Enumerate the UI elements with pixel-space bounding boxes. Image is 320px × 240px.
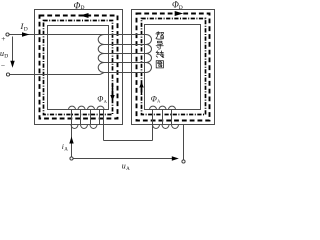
svg-text:A: A	[126, 167, 130, 172]
svg-text:+: +	[1, 34, 5, 43]
svg-text:D: D	[179, 5, 183, 11]
svg-text:D: D	[4, 54, 8, 60]
svg-text:D: D	[81, 5, 85, 11]
svg-text:A: A	[64, 147, 68, 152]
svg-text:Φ: Φ	[74, 0, 81, 10]
svg-text:Φ: Φ	[151, 94, 157, 103]
svg-text:−: −	[1, 61, 5, 70]
svg-text:Φ: Φ	[97, 95, 103, 104]
svg-text:D: D	[24, 27, 28, 33]
